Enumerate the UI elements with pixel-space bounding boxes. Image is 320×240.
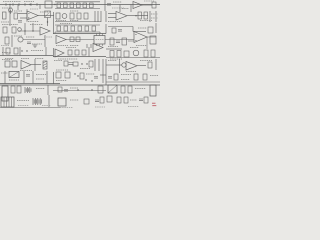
resistor R56 xyxy=(98,86,103,93)
wire vert x95b xyxy=(94,59,96,71)
wire ladder2 left drop xyxy=(54,32,56,34)
resistor R48 xyxy=(56,72,61,78)
resistor R57 xyxy=(121,86,125,93)
wire vert x46 xyxy=(45,47,47,56)
wire vert x103b xyxy=(102,71,104,83)
wire right bend top xyxy=(108,26,133,28)
op-amp U11 xyxy=(126,62,137,71)
label above ladder2 xyxy=(60,23,72,25)
resistor R47 xyxy=(148,62,152,68)
wire U7 out drop xyxy=(146,37,148,49)
resistor R11 xyxy=(56,13,60,19)
label right row7c xyxy=(121,79,130,81)
label q3 text xyxy=(32,43,42,45)
resistor R23 xyxy=(85,26,89,31)
IC U6 xyxy=(94,36,105,45)
op-amp U10 xyxy=(21,61,31,70)
label top text b xyxy=(24,1,34,3)
op-amp U8 xyxy=(55,49,64,57)
label bottom row b xyxy=(42,105,51,107)
resistor R2 xyxy=(64,3,68,8)
resistor R35 xyxy=(68,50,72,55)
resistor R43 hatch xyxy=(43,61,47,68)
resistor R63 xyxy=(124,97,128,103)
label top mid xyxy=(122,8,129,10)
transformer T1 xyxy=(133,50,139,56)
label U2 out xyxy=(40,11,48,13)
label right row6b xyxy=(108,60,117,62)
wire U2 feedback xyxy=(26,9,28,22)
resistor R61 xyxy=(107,96,112,102)
resistor R64 xyxy=(144,97,148,103)
resistor R27 xyxy=(5,37,9,44)
capacitor C9 xyxy=(108,77,112,79)
resistor R39 xyxy=(117,51,121,58)
wire into U2 - xyxy=(20,17,27,19)
label above U2 xyxy=(30,8,38,10)
label row6 mid2 xyxy=(56,69,68,71)
battery BT2 xyxy=(33,98,41,105)
label right row6 xyxy=(140,60,152,62)
capacitor C5 xyxy=(116,41,120,43)
wire y75 mid xyxy=(100,74,106,76)
wire mid y90.5 xyxy=(53,90,106,92)
wire top supply rail xyxy=(0,4,160,6)
label right row3 xyxy=(138,27,147,29)
label under R28 xyxy=(70,45,79,47)
resistor R62 xyxy=(117,97,121,103)
wire vert x106 b24 xyxy=(105,24,107,34)
wire vert x89 xyxy=(88,47,90,57)
wire vert x35b xyxy=(34,59,36,71)
label mid row7b xyxy=(56,80,67,82)
resistor R50 xyxy=(80,73,84,79)
resistor R44 xyxy=(64,61,68,66)
wire right bend vert xyxy=(132,27,134,32)
label row6 mid xyxy=(80,68,90,70)
label row3 text b xyxy=(30,24,43,26)
label below mid rail xyxy=(58,58,78,60)
wire U2 output xyxy=(38,15,54,17)
wire rail y55.5 left xyxy=(0,55,53,57)
label left col xyxy=(1,21,9,23)
node C xyxy=(54,4,55,5)
wire vert x53 b48 xyxy=(53,48,55,57)
label inside U6 xyxy=(96,39,104,41)
resistor R46 xyxy=(89,61,93,67)
resistor R5 xyxy=(83,3,87,8)
logo red watermark xyxy=(152,103,156,105)
resistor R52 xyxy=(134,74,138,80)
wire bottom border xyxy=(0,107,60,109)
op-amp U7 xyxy=(134,32,147,43)
trimmer arrow P1 xyxy=(9,10,13,14)
label U2 in xyxy=(14,10,22,12)
wire ladder2 lower xyxy=(55,31,100,33)
label row5 mid xyxy=(66,47,76,49)
label top right xyxy=(113,1,122,3)
resistor R59 xyxy=(84,99,89,104)
wire mid bus y21.5 xyxy=(55,21,101,23)
ground G1 xyxy=(33,45,37,47)
wire vert x156 b xyxy=(155,23,157,33)
wire ladder2 upper xyxy=(55,24,100,26)
node E xyxy=(21,50,22,51)
wire bus y33.5 xyxy=(53,33,106,35)
wire Q3 out xyxy=(23,39,45,41)
label bottom mid xyxy=(70,99,79,101)
label under U2 xyxy=(28,21,39,23)
label mid row7 xyxy=(86,73,95,75)
wire vert x3 xyxy=(2,47,4,56)
resistor R54 xyxy=(11,86,15,93)
wire vert x48 xyxy=(47,85,49,95)
resistor R36 xyxy=(75,50,79,55)
wire right bend bot xyxy=(133,31,146,33)
label row6 b xyxy=(2,59,12,61)
wire D1 diag xyxy=(108,85,117,93)
op-amp U4 xyxy=(40,27,50,35)
capacitor C8 xyxy=(94,77,98,79)
label bottom row d xyxy=(95,106,105,108)
wire vert x33 xyxy=(32,23,34,31)
label right of Q3 xyxy=(44,36,52,38)
wire U5 to IC xyxy=(66,39,94,41)
wire into U3 + xyxy=(108,13,116,15)
label under R30 xyxy=(108,46,118,48)
label above R12 xyxy=(70,10,79,12)
resistor R16 xyxy=(144,12,148,19)
wire vert x5 xyxy=(4,71,6,84)
wire vert x24 xyxy=(23,71,25,84)
label row6 xyxy=(54,60,62,62)
diode bridge D1 xyxy=(108,85,117,93)
label below rail c xyxy=(35,58,44,60)
wire into U7 lower xyxy=(128,40,134,42)
resistor R29 xyxy=(76,37,80,42)
wire U7 out xyxy=(147,36,156,38)
wire vert x156 c xyxy=(155,59,157,70)
electrolytic C10 xyxy=(2,86,8,101)
relay K2 xyxy=(9,72,19,78)
resistor R30 xyxy=(110,38,114,45)
wire right y82 xyxy=(106,81,160,83)
label row7 b xyxy=(36,78,44,80)
switch S1 xyxy=(5,61,10,67)
capacitor C14 xyxy=(64,90,68,92)
label under U7 xyxy=(136,45,147,47)
label below rail b xyxy=(21,58,29,60)
wire U3 output xyxy=(127,15,148,17)
op-amp U5 xyxy=(56,36,66,44)
wire vert x131 drop xyxy=(130,5,132,13)
capacitor C13 xyxy=(139,99,143,101)
resistor R9 xyxy=(14,13,18,19)
resistor R18 xyxy=(12,27,16,33)
wire top ladder upper xyxy=(55,1,100,3)
label mid r2 xyxy=(70,20,79,22)
transistor Q2 xyxy=(62,14,67,19)
node D2 xyxy=(24,30,25,31)
resistor R20 xyxy=(64,26,68,31)
switch S2 xyxy=(12,61,17,67)
resistor R51 xyxy=(114,74,118,80)
wire vert x119 right xyxy=(119,59,121,73)
label row7 c xyxy=(1,72,8,74)
label mid text xyxy=(108,21,122,23)
label right text xyxy=(140,20,152,22)
resistor R25 xyxy=(112,28,116,33)
label under rail right xyxy=(112,7,124,9)
op-amp U9 xyxy=(93,44,103,52)
resistor R40 xyxy=(124,51,129,57)
label row7 xyxy=(36,74,46,76)
resistor R28 xyxy=(70,37,74,42)
wire left col xyxy=(9,5,11,26)
resistor R49 xyxy=(65,72,70,78)
label row5 right xyxy=(130,47,139,49)
wire vert x106 b59 xyxy=(105,59,107,85)
wire vert x120 drop xyxy=(119,5,121,13)
label bottom row a xyxy=(18,105,29,107)
resistor R31 xyxy=(122,38,127,45)
label row3 text a xyxy=(2,24,18,26)
wire top ladder lower xyxy=(55,8,100,10)
wire vert x12 xyxy=(11,35,13,47)
label mid r xyxy=(56,20,66,22)
wire drop x18 xyxy=(17,5,19,11)
resistor R1 xyxy=(57,3,61,8)
label bottom row c xyxy=(60,107,73,109)
wire U10 out xyxy=(31,64,41,66)
wire rail y83.5 xyxy=(0,83,60,85)
label row5 xyxy=(31,50,43,52)
wire vert x53 b12 xyxy=(53,12,55,34)
wire vert x33b xyxy=(32,71,34,84)
wire into U7 xyxy=(105,39,134,41)
node M xyxy=(85,79,86,80)
node J xyxy=(77,75,78,76)
wire drop x40 xyxy=(39,5,41,10)
wire vert x105 top xyxy=(104,0,106,11)
wire right y49 xyxy=(106,48,122,50)
wire vert x101 xyxy=(100,11,102,22)
resistor R12 xyxy=(70,13,74,19)
wire vert x47 xyxy=(46,71,48,84)
label under rail left xyxy=(2,7,12,9)
diode D2 xyxy=(58,87,62,92)
capacitor C7 xyxy=(26,75,30,77)
wire into U3 - xyxy=(108,17,116,19)
node A xyxy=(9,4,10,5)
wire vert x87 mid xyxy=(86,44,88,48)
wire ladder2 right drop xyxy=(99,32,101,34)
label row5 b xyxy=(2,52,11,54)
label below right row5 xyxy=(110,58,122,60)
capacitor C3 xyxy=(118,30,122,32)
resistor R58 xyxy=(128,86,132,93)
label bottom row e xyxy=(128,106,139,108)
electrolytic C11 xyxy=(150,85,156,96)
resistor R6 xyxy=(90,3,94,8)
wire vert x98 xyxy=(97,11,99,22)
label under U11 xyxy=(126,71,136,73)
battery BT1 xyxy=(25,87,31,93)
label right row7 xyxy=(121,74,131,76)
node K xyxy=(77,89,78,90)
wire right y65 xyxy=(106,64,122,66)
transformer TR1 xyxy=(1,97,14,107)
resistor R10 xyxy=(45,11,51,18)
wire vert x49 xyxy=(48,95,50,107)
label right row7b xyxy=(150,75,158,77)
capacitor C6 xyxy=(69,63,74,65)
node L xyxy=(91,89,92,90)
op-amp U2 input pins xyxy=(28,14,30,19)
op-amp U1 xyxy=(133,2,142,9)
label mid row8 xyxy=(70,87,78,89)
connector X1 xyxy=(58,98,66,106)
resistor R55 xyxy=(17,86,21,93)
resistor R60 xyxy=(100,97,104,103)
label top far right xyxy=(144,0,154,2)
label top-left text xyxy=(3,1,21,3)
node D3 xyxy=(32,30,33,31)
label below rail a xyxy=(5,58,14,60)
resistor R4 xyxy=(77,3,81,8)
resistor R26 xyxy=(148,27,153,33)
label q3 xyxy=(14,35,22,37)
label row7 d xyxy=(9,79,19,81)
wire K2 diag xyxy=(9,72,19,78)
wire vert x91 mid xyxy=(90,44,92,48)
node N xyxy=(91,80,92,81)
wire vert x150 xyxy=(149,11,151,22)
resistor R34 xyxy=(14,48,18,54)
label bottom left xyxy=(17,100,29,102)
wire vert x20 xyxy=(19,47,21,56)
transformer TR1 windings xyxy=(4,97,12,107)
resistor R33 xyxy=(6,48,10,54)
paper noise texture xyxy=(0,0,160,110)
resistor R7 xyxy=(152,2,156,8)
resistor R24 xyxy=(92,26,96,31)
resistor R13 xyxy=(77,13,81,19)
resistor R37 xyxy=(82,50,86,55)
IC U6 pins xyxy=(97,34,103,47)
wire rail ticks xyxy=(6,3,37,6)
transistor Q3 xyxy=(18,37,23,42)
node R10 bottom xyxy=(47,21,48,22)
capacitor C1 xyxy=(107,4,111,6)
transistor Q4 xyxy=(122,63,126,67)
label left row4 xyxy=(26,36,35,38)
capacitor C12 xyxy=(95,100,99,102)
wire vert x45 xyxy=(44,35,46,47)
node I xyxy=(74,73,75,74)
wire vert x99 xyxy=(98,59,100,71)
wire vert x25 xyxy=(24,23,26,35)
label bottom left row4 xyxy=(1,45,9,47)
wire into U4 xyxy=(18,30,40,32)
wire U1 out xyxy=(142,4,152,6)
resistor R38 xyxy=(110,51,114,58)
wire vert x95 xyxy=(94,11,96,22)
resistor R14 xyxy=(84,13,88,19)
wire vert x103 xyxy=(102,59,104,71)
op-amp U3 xyxy=(116,12,127,21)
label bottom right xyxy=(130,99,137,101)
label row8 xyxy=(36,88,45,90)
node F xyxy=(26,50,27,51)
label right text2 xyxy=(151,13,158,15)
wire R10 drop xyxy=(47,18,49,27)
label row6 left wire xyxy=(20,70,32,72)
resistor R3 xyxy=(70,3,74,8)
op-amp U2 xyxy=(27,11,38,20)
capacitor C2 xyxy=(18,21,22,23)
resistor R32 xyxy=(150,36,156,44)
resistor R15 xyxy=(138,12,142,19)
resistor R21 xyxy=(71,26,75,31)
transistor Q5 xyxy=(18,28,22,32)
resistor R41 xyxy=(144,50,148,57)
resistor R53 xyxy=(143,74,147,80)
wire vert x53 b72 xyxy=(53,72,55,84)
transistor Q1 xyxy=(9,8,13,12)
resistor R42 xyxy=(151,50,155,57)
resistor R43 xyxy=(43,61,47,69)
op-amp U7 input pins xyxy=(135,35,137,41)
wire rail y85 xyxy=(0,84,160,86)
node H xyxy=(86,63,87,64)
node B xyxy=(29,4,30,5)
label right row8 xyxy=(135,88,146,90)
label right text3 xyxy=(151,17,158,19)
resistor R22 xyxy=(78,26,82,31)
resistor R8 xyxy=(3,12,7,19)
node G xyxy=(81,63,82,64)
wire U11 out xyxy=(137,65,146,67)
wire R10 diag xyxy=(45,11,51,18)
relay K1 xyxy=(45,1,52,8)
resistor R19 xyxy=(57,26,61,31)
resistor R45 xyxy=(73,62,78,66)
wire right rail y57.5 xyxy=(106,57,160,59)
wire into U2 + xyxy=(18,13,27,15)
capacitor C4 xyxy=(27,42,31,44)
wire vert x106 b12 xyxy=(105,11,107,22)
node U3out xyxy=(135,15,136,16)
wire vert x156 xyxy=(155,11,157,22)
wire rail y56.5 mid xyxy=(53,56,106,58)
resistor R17 xyxy=(3,27,7,33)
label under U5 xyxy=(56,45,68,47)
